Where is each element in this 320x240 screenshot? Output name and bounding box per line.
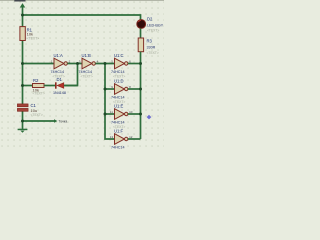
svg-text:U1:C: U1:C [114, 53, 124, 58]
svg-text:74HC14: 74HC14 [111, 121, 125, 125]
wire: right output bus [140, 52, 142, 139]
wire: D1 to feedback drop [64, 85, 78, 87]
node: junction A output / feedback [76, 62, 79, 65]
op-amp U1:C inverter 74HC14 [111, 53, 131, 79]
ground [18, 129, 28, 133]
svg-text:D2: D2 [147, 17, 153, 22]
power +5V label (cut off at top) [14, 0, 25, 2]
svg-text:D1: D1 [57, 77, 63, 82]
node: junction left rail / output point [21, 120, 24, 123]
capacitor C1 [17, 103, 42, 117]
wire: feedback drop from A output [64, 64, 77, 86]
svg-text:R3: R3 [147, 39, 153, 44]
node: junction left rail / A input [21, 62, 24, 65]
svg-text:<TEXT>: <TEXT> [147, 51, 159, 55]
op-amp U1:E inverter 74HC14 [110, 104, 133, 130]
wire: gate A input from left rail [23, 63, 55, 65]
svg-text:Точка: Точка [58, 120, 67, 124]
node marker: blue diamond [147, 115, 152, 120]
op-amp U1:A inverter 74HC14 [51, 53, 71, 79]
wire: D output to right bus [128, 88, 141, 90]
svg-text:74HC14: 74HC14 [111, 96, 125, 100]
svg-text:<TEXT>: <TEXT> [31, 113, 43, 117]
diode D1 1N4148 [53, 77, 66, 95]
svg-text:1N4148: 1N4148 [53, 91, 66, 95]
wire: A output to B input [67, 63, 82, 65]
node: junction B output / input bus [104, 62, 107, 65]
wire: E input stub [105, 113, 115, 115]
node: junction power rail / left rail [21, 14, 24, 17]
wire: output point stub [23, 120, 55, 122]
op-amp U1:F inverter 74HC14 [110, 129, 133, 150]
svg-text:R2: R2 [33, 78, 39, 83]
node: junction input bus / E input [104, 113, 107, 116]
resistor R2 [33, 78, 45, 96]
wire: B output to C input [95, 63, 114, 65]
svg-text:<TEXT>: <TEXT> [33, 92, 45, 96]
node: junction input bus / D input [104, 88, 107, 91]
svg-text:<TEXT>: <TEXT> [27, 36, 40, 40]
power terminal arrow [20, 3, 25, 7]
node: junction right bus / E output [139, 113, 142, 116]
svg-text:U1:E: U1:E [114, 104, 124, 109]
svg-text:<TEXT>: <TEXT> [147, 29, 159, 33]
svg-text:330R: 330R [147, 45, 156, 49]
wire: E output to right bus [128, 113, 141, 115]
resistor R3 [138, 38, 159, 55]
svg-text:13: 13 [110, 135, 114, 139]
svg-text:74HC14: 74HC14 [111, 146, 125, 150]
svg-text:<TEXT>: <TEXT> [81, 75, 93, 79]
svg-text:74HC14: 74HC14 [79, 70, 93, 74]
node: junction right bus / D output [139, 88, 142, 91]
node: junction right bus / C output [139, 62, 142, 65]
wire: top power rail to LED [23, 15, 141, 20]
wire: input bus down to D E F [105, 64, 115, 140]
svg-text:U1:B: U1:B [82, 53, 92, 58]
wire: LED to R3 [140, 28, 142, 38]
op-amp U1:B inverter 74HC14 [79, 53, 99, 79]
svg-text:U1:A: U1:A [54, 53, 64, 58]
wire: D input stub [105, 88, 115, 90]
svg-text:LED-BGY: LED-BGY [147, 24, 164, 28]
svg-text:U1:D: U1:D [114, 79, 124, 84]
LED D2 [137, 17, 164, 33]
svg-text:11: 11 [110, 110, 113, 114]
wire: R2 to D1 [44, 85, 55, 87]
node: output point terminal arrow [54, 119, 67, 123]
svg-text:74HC14: 74HC14 [111, 70, 125, 74]
resistor R1 [20, 27, 39, 41]
wire: left rail from power arrow down to C1 top [22, 7, 24, 104]
wire: left rail from C1 bottom to ground [22, 111, 24, 129]
wire: C output to right bus [128, 63, 141, 65]
wire: F output to right bus [128, 138, 141, 140]
op-amp U1:D inverter 74HC14 [111, 79, 131, 105]
node: junction left rail / feedback row [21, 84, 24, 87]
svg-text:U1:F: U1:F [114, 129, 124, 134]
svg-text:74HC14: 74HC14 [51, 70, 65, 74]
wire: feedback row left of R2 [23, 85, 33, 87]
